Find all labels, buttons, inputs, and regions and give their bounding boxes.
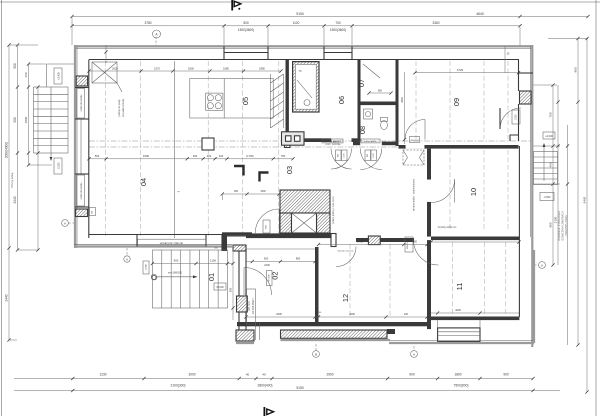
bottom room dimension chain	[14, 378, 533, 380]
svg-text:2440: 2440	[5, 294, 9, 301]
wall left of room 10 double	[427, 149, 431, 237]
door arc room 09 right	[500, 108, 521, 129]
wall stub corridor left	[222, 234, 227, 251]
chimney hatched block	[280, 190, 330, 213]
svg-text:-2,500: -2,500	[544, 196, 551, 199]
svg-text:1500(3600): 1500(3600)	[238, 28, 254, 32]
right chain line 2	[557, 85, 559, 265]
section marker A right	[539, 262, 546, 269]
svg-text:2700: 2700	[516, 114, 518, 120]
svg-text:1100: 1100	[210, 258, 216, 262]
svg-text:Druhy vstup: Druhy vstup	[10, 172, 14, 187]
svg-text:500: 500	[13, 63, 17, 69]
wall right of room 12 double	[427, 240, 431, 329]
terrace band lower gray line	[281, 339, 391, 341]
right exterior wall inner edge mid	[518, 104, 520, 141]
entrance porch gray edge	[236, 342, 254, 344]
section cut L mark right	[260, 173, 269, 182]
room 12 top wall segments	[356, 238, 368, 242]
hatched pier entrance top	[233, 245, 246, 251]
left exterior wall inner edge	[88, 60, 90, 239]
svg-text:400: 400	[404, 313, 409, 316]
svg-text:900: 900	[13, 117, 17, 123]
window bottom wing	[136, 235, 138, 247]
svg-text:3400: 3400	[276, 312, 282, 316]
svg-text:980: 980	[549, 222, 553, 227]
svg-text:2430: 2430	[264, 263, 270, 267]
svg-text:02: 02	[271, 271, 280, 279]
boxed label SH room 02	[267, 271, 273, 286]
room 11 dim	[431, 241, 519, 243]
svg-text:-2,520: -2,520	[58, 162, 61, 170]
svg-text:+0,000: +0,000	[146, 263, 148, 270]
window extension lines top	[223, 27, 225, 45]
svg-text:(1700): (1700)	[246, 154, 254, 158]
svg-text:01: 01	[207, 273, 216, 281]
right chain line 3	[577, 39, 579, 346]
left wall window mid pane	[80, 119, 82, 174]
svg-text:650: 650	[234, 190, 239, 193]
svg-text:930: 930	[229, 287, 233, 292]
svg-text:850: 850	[378, 90, 383, 93]
interior dim vertical room 09 left	[404, 72, 406, 144]
svg-text:03: 03	[285, 166, 294, 174]
hatched pier room 12 top	[368, 236, 380, 245]
section marker A bottom	[411, 351, 418, 358]
window left wall 2 jambs	[75, 173, 89, 175]
svg-text:viz pudni schody: viz pudni schody	[122, 98, 125, 117]
svg-text:venkovni zaluzie: venkovni zaluzie	[81, 182, 83, 200]
right wall step at section line	[510, 135, 519, 141]
window left wall 2 label box	[77, 175, 85, 206]
right exterior wall inner edge upper	[518, 60, 520, 92]
svg-text:925 1970: 925 1970	[249, 300, 251, 310]
svg-text:500: 500	[95, 154, 100, 158]
bottom-left wing outer edge	[74, 245, 232, 247]
door labels room 08	[365, 150, 371, 161]
svg-text:890: 890	[296, 256, 301, 260]
svg-text:04: 04	[139, 178, 148, 186]
room 11 window bay	[438, 328, 480, 342]
svg-text:1500: 1500	[260, 190, 266, 193]
room 11 bottom wall	[431, 317, 519, 321]
terrace band end cap	[387, 329, 395, 334]
level marker circle room 01	[152, 275, 157, 280]
svg-text:08: 08	[358, 126, 367, 134]
interior dim chain below top wall	[89, 70, 281, 72]
svg-text:pozn. polozka: pozn. polozka	[326, 143, 341, 146]
wing end wall block	[222, 232, 252, 236]
entrance wall vertical double	[238, 247, 240, 341]
interior stair diagonals	[270, 74, 272, 128]
toilet room 08	[381, 120, 388, 129]
exterior stair right	[534, 152, 558, 185]
grid lines room 11	[452, 242, 454, 315]
washbasin room 08	[364, 109, 373, 119]
svg-text:980: 980	[574, 67, 578, 72]
door arc room 12 top	[413, 240, 438, 265]
bottom-left wing inner edge	[89, 234, 222, 236]
svg-text:900: 900	[264, 256, 269, 260]
wall 07-09 vertical	[396, 60, 399, 147]
svg-text:D2 SDK RW/LT: D2 SDK RW/LT	[253, 297, 255, 313]
wardrobe dashed outline	[403, 150, 424, 165]
left chain line outer	[8, 45, 10, 340]
door opening room 09 in wall	[405, 145, 425, 149]
svg-text:11: 11	[455, 283, 464, 291]
left chain line 2	[17, 45, 19, 250]
svg-text:09: 09	[452, 98, 461, 106]
right inner wall lower	[518, 146, 520, 317]
kitchen island column	[202, 138, 214, 150]
level label lower left boxed	[54, 158, 62, 174]
door label box room 12	[405, 237, 413, 252]
right chain line extra	[567, 125, 569, 345]
svg-text:3780: 3780	[144, 21, 151, 25]
svg-text:zdena pricka: zdena pricka	[364, 140, 377, 143]
page border right	[595, 0, 597, 416]
svg-text:3x(140)+1250 mm: 3x(140)+1250 mm	[337, 251, 354, 253]
top exterior wall outer edge	[74, 45, 533, 47]
right chain connectors	[533, 84, 557, 86]
svg-text:A: A	[541, 263, 543, 267]
svg-text:10: 10	[469, 188, 478, 196]
exterior stair left	[34, 87, 69, 153]
right chain line 4 total	[586, 39, 588, 393]
top window dimension chain	[72, 25, 520, 27]
door label box room 02 bottom	[247, 289, 256, 324]
grid lines living room	[105, 61, 107, 236]
svg-text:1230: 1230	[99, 373, 106, 377]
svg-text:9460: 9460	[583, 196, 587, 203]
kitchen counter outline	[190, 79, 273, 119]
window W2 top wall	[323, 46, 325, 59]
svg-text:2150: 2150	[554, 216, 558, 223]
chimney vent X box	[292, 213, 317, 233]
bottom total dimension line	[14, 390, 560, 392]
wall below chimney	[280, 233, 331, 238]
svg-text:1800: 1800	[24, 116, 28, 123]
exterior stair left center arrow	[50, 87, 52, 160]
svg-text:3360: 3360	[432, 21, 439, 25]
boxed label room 09 right	[512, 110, 520, 124]
left chain connectors	[9, 44, 38, 46]
svg-text:750: 750	[281, 154, 286, 158]
room 04-05 boundary line	[174, 61, 176, 238]
entrance lintel line	[228, 235, 247, 237]
main stair treads	[152, 250, 227, 308]
room 12 dim	[319, 244, 428, 246]
door arc room 02 bottom	[243, 268, 245, 296]
svg-text:venkovni zaluzie: venkovni zaluzie	[81, 94, 83, 112]
shower drain	[304, 100, 310, 106]
door arc corridor to 04	[255, 209, 279, 233]
svg-text:06: 06	[337, 96, 346, 104]
right chain line 1	[552, 85, 554, 265]
svg-text:3460: 3460	[357, 240, 364, 244]
section cut L mark left	[234, 166, 244, 176]
svg-text:2620: 2620	[112, 66, 118, 70]
svg-text:4725: 4725	[472, 237, 479, 241]
window bottom wing label box	[138, 239, 207, 246]
hatched pier below 05-06 wall	[285, 135, 291, 148]
window left wall 1 jambs	[75, 87, 89, 89]
section marker B bottom	[313, 351, 320, 358]
left exterior wall outer edge	[74, 45, 76, 248]
room 11 bottom dim	[431, 312, 519, 314]
top total dimension line	[72, 16, 588, 18]
grid lines room 12	[349, 244, 351, 318]
right exterior wall outer edge	[531, 45, 533, 347]
svg-text:900: 900	[503, 373, 509, 377]
main stair direction line	[151, 274, 156, 279]
left chain line 3	[28, 64, 30, 165]
svg-text:400: 400	[207, 154, 212, 158]
svg-text:49: 49	[262, 373, 266, 377]
terrace outer edge bottom right	[389, 342, 534, 344]
kitchen hob	[206, 93, 223, 110]
section marker A top	[153, 30, 161, 38]
section marker A left	[62, 220, 69, 227]
terrace steps near entrance	[255, 322, 257, 340]
page border left	[1, 0, 3, 416]
svg-text:3000: 3000	[188, 373, 195, 377]
svg-text:1570: 1570	[154, 66, 160, 70]
window W1 top wall	[223, 46, 225, 59]
svg-text:1800: 1800	[454, 373, 461, 377]
svg-text:1500(3600): 1500(3600)	[330, 28, 346, 32]
section line horizontal 1	[89, 140, 531, 142]
svg-text:1680: 1680	[223, 66, 229, 70]
svg-text:3x(140)+1250 mm: 3x(140)+1250 mm	[438, 227, 457, 229]
door jamb post corridor to 12	[331, 234, 336, 247]
svg-text:9150: 9150	[296, 12, 304, 16]
svg-text:400: 400	[219, 154, 224, 158]
svg-text:B: B	[315, 352, 317, 356]
hatched block entrance bottom	[236, 330, 254, 341]
svg-text:2900: 2900	[326, 373, 333, 377]
svg-text:2440: 2440	[13, 196, 17, 203]
hatched pier left wall upper	[76, 76, 87, 86]
svg-text:700: 700	[335, 21, 341, 25]
dim chain above bottom wall	[246, 316, 427, 318]
svg-text:450: 450	[193, 154, 198, 158]
right wall corner line	[519, 72, 533, 74]
svg-text:1800: 1800	[188, 66, 194, 70]
svg-text:1880: 1880	[259, 66, 265, 70]
wall 06-07 vertical	[358, 60, 361, 142]
wall top of room 10	[399, 145, 519, 149]
svg-text:venkovni zaluzie: venkovni zaluzie	[160, 241, 184, 245]
level label upper left boxed	[54, 68, 62, 84]
terrace hatched band bottom	[281, 330, 388, 338]
stair hall dim vertical	[232, 248, 234, 320]
svg-text:+0,000: +0,000	[545, 135, 553, 138]
boxed level label room 01	[214, 283, 226, 290]
svg-text:A: A	[413, 352, 415, 356]
wall bottom of room 10 / top of 11	[431, 237, 519, 241]
door arc corridor to room 12	[336, 247, 356, 267]
svg-text:9150: 9150	[296, 386, 304, 390]
svg-text:900: 900	[409, 373, 415, 377]
page border top	[0, 1, 600, 3]
door arc room 09 bottom left	[405, 120, 425, 140]
grid lines room 10	[449, 150, 451, 230]
window left wall 1 label box	[77, 89, 85, 119]
svg-text:zdvojeni pricky · sadrokartone: zdvojeni pricky · sadrokartonem	[413, 179, 416, 212]
grid lines room 09	[415, 61, 417, 139]
wall bottom of 08 horizontal	[353, 142, 360, 146]
svg-text:460: 460	[549, 162, 553, 167]
wall between 04-05 and 06 vertical	[286, 60, 289, 135]
level label right lower boxed	[540, 193, 554, 201]
svg-text:sxv:168/150: sxv:168/150	[168, 271, 183, 275]
attic access X box	[92, 62, 117, 83]
svg-text:800 1970: 800 1970	[407, 239, 409, 249]
svg-text:A: A	[64, 221, 66, 225]
north arrow bottom	[264, 407, 266, 416]
svg-text:1120: 1120	[293, 21, 300, 25]
hatched pier left wall lower	[76, 209, 88, 217]
room 02 and 12 bottom wall	[237, 322, 427, 326]
attic access leader and label	[117, 82, 123, 92]
exterior stair left upper rail	[46, 64, 48, 87]
svg-text:(zdene pricky) v cele vysce: (zdene pricky) v cele vysce	[332, 195, 335, 223]
svg-text:TS: TS	[298, 69, 302, 73]
wall bottom of 06 horizontal	[290, 138, 331, 142]
hatched pier right wall	[520, 91, 532, 104]
wall left of chimney to entry	[246, 233, 280, 238]
svg-text:zdena pricka: zdena pricka	[326, 140, 339, 143]
room 02 upper small dim	[246, 248, 315, 250]
svg-text:12: 12	[341, 294, 350, 302]
small dim top left corner	[105, 45, 107, 63]
top exterior wall inner edge	[89, 59, 519, 61]
door arc room 10	[431, 179, 455, 203]
level label right upper boxed	[543, 132, 555, 139]
hatched pier entrance mid	[237, 296, 248, 312]
svg-text:+2,435: +2,435	[58, 72, 61, 80]
svg-text:700 1970: 700 1970	[411, 140, 419, 142]
svg-text:A: A	[126, 257, 128, 261]
svg-text:05: 05	[241, 97, 250, 105]
svg-text:900: 900	[174, 258, 179, 262]
svg-text:4230: 4230	[455, 308, 461, 312]
door arcs room 08 double	[360, 149, 382, 170]
svg-text:3400: 3400	[349, 312, 355, 316]
room 02-12 wall double vertical	[315, 247, 319, 322]
door arcs room 06 double	[331, 149, 352, 170]
svg-text:poklop do pudy: poklop do pudy	[118, 99, 121, 117]
small dim at lower pier	[90, 208, 96, 216]
svg-text:200: 200	[92, 211, 94, 214]
shower diagonal	[297, 80, 312, 98]
svg-text:1500: 1500	[143, 154, 150, 158]
section line horizontal 2	[89, 146, 400, 148]
svg-text:2100(300): 2100(300)	[170, 384, 185, 388]
svg-text:±0,000: ±0,000	[216, 286, 224, 289]
boxed label left of stairs	[143, 261, 149, 274]
section marker A wing	[124, 256, 130, 262]
north arrow top	[231, 0, 233, 11]
svg-text:7500(900): 7500(900)	[453, 384, 468, 388]
svg-text:4725: 4725	[457, 68, 464, 72]
svg-text:2000(4000): 2000(4000)	[5, 142, 9, 158]
svg-text:4640: 4640	[476, 12, 484, 16]
wall 07-08 horizontal	[358, 102, 399, 106]
svg-text:2800(400): 2800(400)	[257, 384, 272, 388]
room 02 dimension line	[246, 261, 315, 263]
kitchen appliance block	[282, 132, 305, 145]
svg-text:40: 40	[246, 373, 250, 377]
left chain line 4	[37, 87, 39, 250]
corridor dimension chain	[89, 158, 293, 160]
corridor secondary dim	[222, 193, 279, 195]
vertical dim left of kitchen	[88, 60, 90, 71]
svg-text:500: 500	[243, 21, 249, 25]
exterior stair right arrow	[543, 144, 545, 181]
shower enclosure room 06	[293, 62, 319, 112]
partition labels under 06 08	[322, 139, 343, 143]
room 07 interior detail	[363, 64, 380, 78]
door opening room 10	[427, 179, 431, 203]
svg-text:750: 750	[549, 112, 553, 117]
svg-text:800: 800	[413, 241, 418, 244]
stair dimension line	[152, 263, 233, 265]
svg-text:07: 07	[357, 79, 366, 87]
svg-text:160: 160	[24, 72, 28, 77]
svg-text:2850: 2850	[401, 97, 404, 103]
room 09 top interior dim	[415, 72, 519, 74]
door labels room 06	[336, 150, 342, 161]
